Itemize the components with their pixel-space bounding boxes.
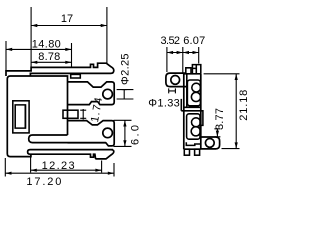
dimension 6.0 extension lines (114, 120, 132, 146)
lower cavity contact bumps (192, 118, 201, 127)
upper cavity contact bumps (192, 83, 201, 92)
svg-text:21.18: 21.18 (238, 90, 250, 121)
svg-text:3.52: 3.52 (161, 35, 181, 47)
svg-text:6.0: 6.0 (130, 125, 142, 145)
middle rib (63, 110, 78, 118)
right view feet (184, 149, 189, 155)
right view tab hole lower (205, 139, 214, 148)
right view tab hole upper (171, 76, 180, 85)
right view cavity separator (184, 107, 201, 111)
dimension 3.52 6.07 extension lines (167, 47, 199, 73)
terminal 1 hole (103, 89, 113, 99)
dimension 6.0 line (124, 120, 126, 146)
svg-text:14.80: 14.80 (32, 39, 61, 51)
right view mounting tab upper left (166, 73, 186, 87)
terminal 1 (upper blade) (68, 82, 115, 105)
right view right tower (192, 65, 200, 74)
dimension 3.77 line (214, 129, 220, 137)
right view left side step (181, 99, 184, 111)
right view mounting tab lower right (201, 137, 220, 149)
dimension 17.20 line (5, 172, 114, 174)
dimension 21.18 line (235, 74, 237, 149)
bottom bar with hook (28, 150, 114, 159)
dimension 17 extension lines (31, 7, 107, 67)
dimension 14.80 line (6, 48, 72, 50)
step block under flange (71, 74, 81, 78)
dimension 3.52 6.07 line (167, 52, 199, 54)
lower cavity shelf (186, 142, 201, 145)
svg-text:17.20: 17.20 (26, 176, 61, 188)
dimension phi 1.33 marker (169, 88, 176, 93)
left side window inner latch (15, 105, 25, 128)
left view body outline (7, 76, 67, 157)
right view lower cavity (187, 114, 200, 139)
right view inner wall line (186, 74, 188, 108)
right view body (184, 74, 201, 149)
left view top flange with latch hook (6, 63, 114, 76)
svg-text:3.77: 3.77 (214, 108, 226, 130)
terminal 2 (lower blade) (68, 121, 115, 146)
bottom ledge (29, 135, 106, 143)
dimension 12.23 line (31, 169, 102, 171)
dimension 8.78 line (31, 61, 71, 63)
right view upper cavity (187, 80, 200, 106)
dimension 14.80 extension lines (6, 41, 72, 71)
dimension 17 line (31, 25, 107, 27)
svg-text:6.07: 6.07 (183, 35, 205, 47)
right view left tower (186, 68, 191, 74)
dimension 17.20 extension lines (5, 158, 114, 177)
svg-text:12.23: 12.23 (42, 160, 75, 172)
svg-text:17: 17 (61, 13, 73, 25)
svg-text:Φ2.25: Φ2.25 (119, 53, 131, 85)
dimension 12.23 extension lines (31, 158, 102, 173)
dimension phi 2.25 marker (122, 90, 127, 99)
svg-text:8.78: 8.78 (38, 51, 60, 63)
dimension phi 2.25 extension lines (117, 90, 134, 99)
terminal 2 hole (103, 128, 113, 138)
left side window outer (13, 101, 29, 133)
rib dimension marker 1.74 (80, 109, 86, 120)
right side rib (201, 111, 203, 126)
dimension 21.18 extension lines (204, 74, 240, 149)
svg-text:Φ1.33: Φ1.33 (148, 97, 180, 109)
dimension 17 arrows (31, 24, 37, 27)
